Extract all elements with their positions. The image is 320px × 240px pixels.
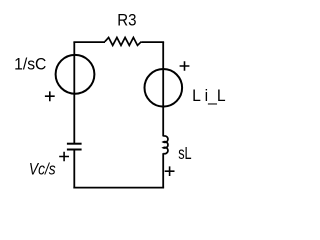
source U1 through-line	[73, 55, 75, 94]
resistor R3	[105, 38, 142, 46]
source U2 through-line	[162, 69, 164, 107]
svg-text:sL: sL	[178, 144, 191, 163]
plus sign near L i_L source	[180, 61, 190, 71]
capacitor (Vc/s) top plate	[67, 143, 82, 145]
wire right bottom vertical	[162, 153, 164, 187]
svg-text:1/sC: 1/sC	[14, 56, 46, 73]
wire right mid vertical	[162, 107, 164, 137]
source U2 circle (L i_L)	[145, 69, 183, 107]
svg-text:R3: R3	[117, 12, 136, 30]
wire left bottom vertical	[73, 150, 75, 189]
inductor sL	[163, 136, 168, 154]
plus sign near capacitor	[59, 152, 69, 162]
plus sign near inductor	[165, 166, 175, 176]
wire top-left vertical	[73, 42, 75, 55]
svg-text:Vc/s: Vc/s	[29, 161, 56, 179]
wire left mid vertical	[73, 94, 75, 144]
wire bottom horizontal	[73, 187, 164, 189]
svg-text:L i_L: L i_L	[192, 88, 226, 105]
wire top horizontal left lead	[73, 41, 105, 43]
capacitor (Vc/s) bottom plate	[67, 149, 82, 151]
plus sign near 1/sC source	[45, 91, 55, 101]
wire top horizontal right lead	[141, 41, 164, 43]
wire top-right vertical	[162, 42, 164, 69]
source U1 circle (1/sC)	[56, 55, 95, 94]
